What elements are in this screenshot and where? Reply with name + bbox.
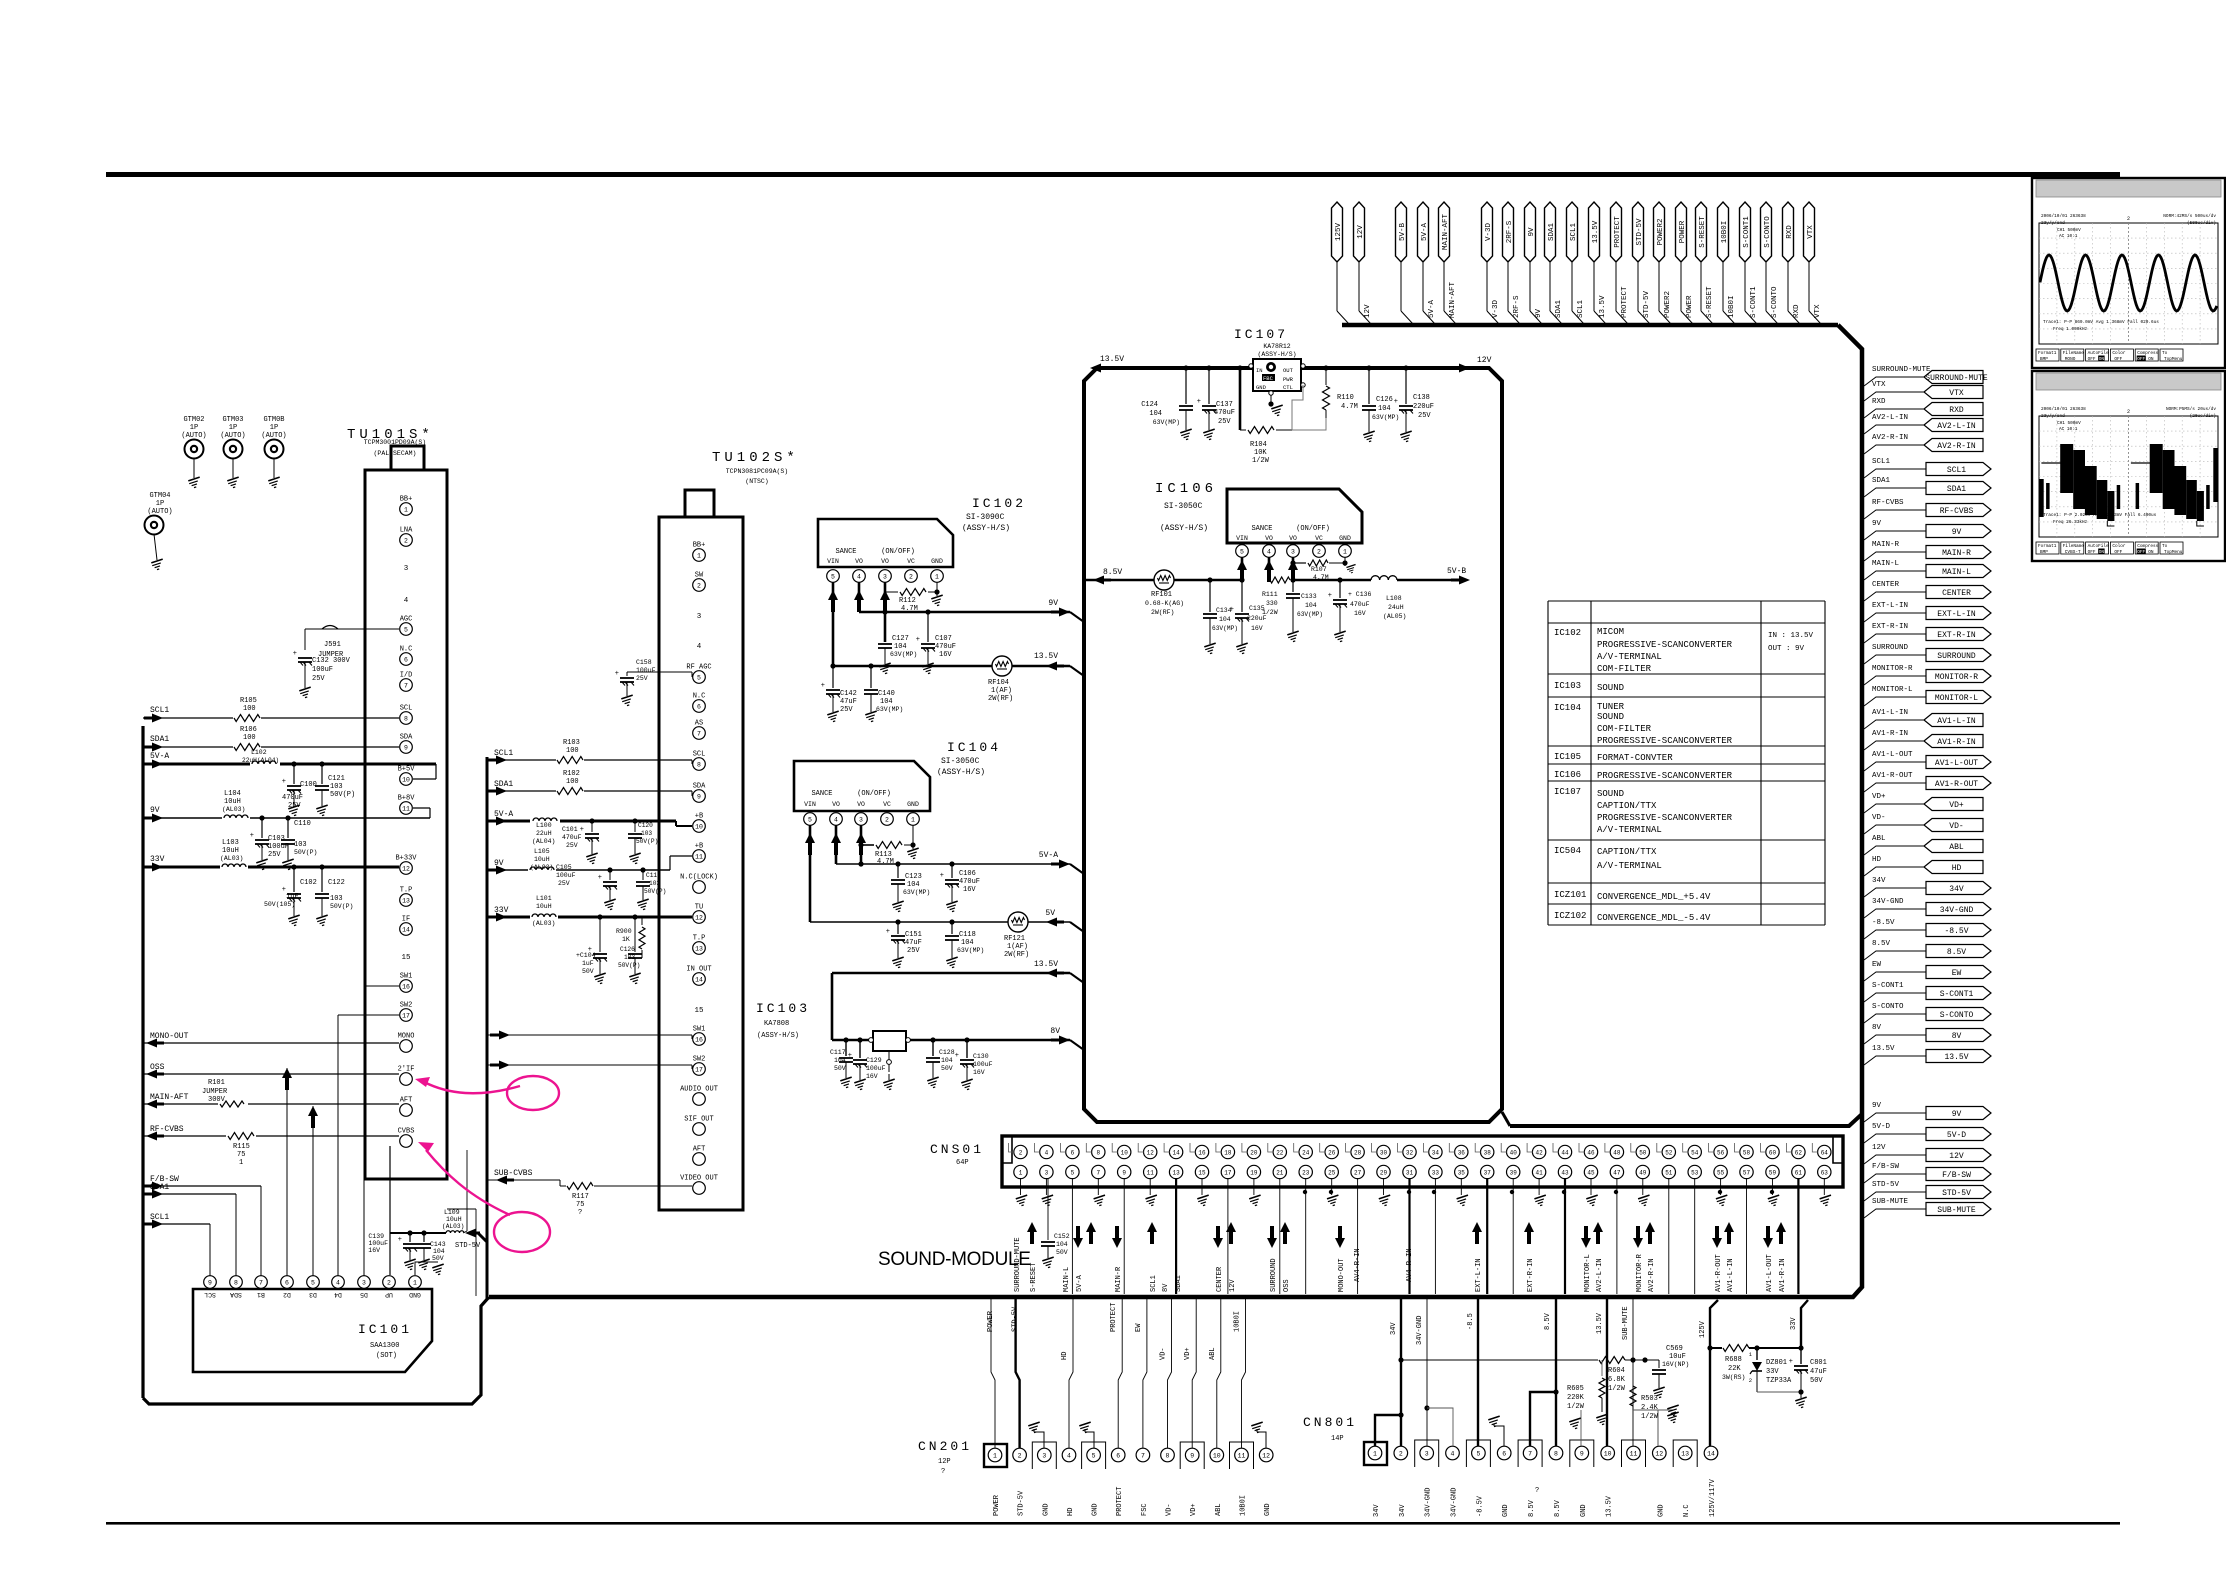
capacitor C127 104 63V(MP) [884, 612, 886, 642]
svg-text:AV1-L-IN: AV1-L-IN [1727, 1258, 1735, 1292]
svg-text:C138: C138 [1413, 394, 1430, 402]
svg-text:45: 45 [1587, 1169, 1595, 1176]
svg-text:10: 10 [402, 776, 410, 783]
capacitor C134 104 63V(MP) [1207, 577, 1212, 582]
svg-text:125V: 125V [1699, 1320, 1707, 1338]
svg-text:34V: 34V [1373, 1504, 1381, 1517]
ground [1034, 1432, 1044, 1448]
svg-text:(PAL-SECAM): (PAL-SECAM) [374, 450, 417, 457]
svg-text:34V: 34V [1949, 885, 1964, 894]
svg-text:13: 13 [695, 945, 703, 952]
svg-text:IC101: IC101 [358, 1322, 412, 1337]
svg-text:+C104: +C104 [576, 952, 596, 959]
svg-text:41: 41 [1535, 1169, 1543, 1176]
svg-text:EXT-R-IN: EXT-R-IN [1937, 631, 1976, 640]
capacitor C143 104 50V [423, 1233, 425, 1242]
svg-text:SCL1: SCL1 [1577, 299, 1585, 318]
svg-text:12V: 12V [1872, 1144, 1886, 1152]
svg-text:1K: 1K [622, 936, 630, 943]
svg-text:CENTER: CENTER [1216, 1266, 1224, 1292]
svg-text:51: 51 [1665, 1169, 1673, 1176]
svg-text:C151: C151 [905, 931, 922, 939]
svg-text:8.5V: 8.5V [1554, 1499, 1562, 1517]
svg-text:D2: D2 [283, 1291, 291, 1298]
svg-text:470uF: 470uF [282, 794, 303, 802]
svg-text:VD+: VD+ [1184, 1347, 1192, 1360]
svg-text:+: + [821, 682, 825, 690]
capacitor C120 103 50V(P) [634, 821, 636, 832]
svg-text:17: 17 [402, 1012, 410, 1019]
svg-text:C135: C135 [1249, 605, 1265, 612]
svg-text:SURROUND: SURROUND [1872, 644, 1909, 652]
svg-text:C140: C140 [878, 690, 895, 698]
svg-text:RXD: RXD [1872, 398, 1886, 406]
svg-text:2W(RF): 2W(RF) [988, 695, 1013, 703]
sheet top border [106, 172, 2120, 177]
svg-text:D4: D4 [334, 1291, 342, 1298]
svg-text:IC504: IC504 [1554, 846, 1581, 856]
svg-text:+: + [398, 1236, 402, 1244]
junction [882, 609, 887, 614]
svg-text:100: 100 [566, 747, 579, 755]
svg-text:GND: GND [1264, 1503, 1272, 1516]
resistor R112 4.7M [885, 591, 898, 593]
svg-text:AV1-L-OUT: AV1-L-OUT [1935, 759, 1978, 768]
TU102S left rail [486, 757, 489, 1300]
capacitor C129 100uF 16V [859, 1040, 861, 1058]
svg-text:IC106: IC106 [1155, 481, 1217, 497]
svg-text:STD-5V: STD-5V [1643, 290, 1651, 318]
ground [912, 825, 914, 849]
svg-text:1: 1 [911, 816, 915, 823]
svg-text:NORM:P5MS/s 20us/dv: NORM:P5MS/s 20us/dv [2166, 407, 2216, 412]
svg-text:26: 26 [1328, 1149, 1336, 1156]
svg-text:9: 9 [404, 744, 408, 751]
svg-text:10B0I: 10B0I [1721, 221, 1729, 244]
svg-text:-8.5V: -8.5V [1944, 927, 1968, 936]
svg-text:40: 40 [1510, 1149, 1518, 1156]
tuner TU101S block [365, 470, 447, 1179]
svg-text:+ C136: + C136 [1348, 591, 1372, 598]
svg-text:AC 10:1: AC 10:1 [2059, 234, 2078, 239]
svg-text:C117: C117 [830, 1049, 846, 1056]
svg-text:C119: C119 [646, 872, 661, 879]
svg-text:220uF: 220uF [1413, 403, 1434, 411]
svg-text:6: 6 [697, 703, 701, 710]
svg-text:-8.5V: -8.5V [1476, 1495, 1484, 1517]
capacitor C132 100uF 25V 300V [304, 629, 306, 650]
svg-text:47uF: 47uF [1810, 1368, 1827, 1376]
svg-text:?: ? [941, 1468, 945, 1476]
svg-text:C143: C143 [430, 1241, 446, 1248]
ground pin12 [1658, 1410, 1673, 1446]
net 13.5V line [833, 665, 992, 668]
svg-text:14P: 14P [1331, 1435, 1344, 1443]
svg-text:IC107: IC107 [1234, 327, 1288, 342]
junction dots on 13.5V rail [1183, 365, 1188, 370]
resistor R104 10K 1/2W [1248, 427, 1274, 434]
svg-text:38: 38 [1484, 1149, 1492, 1156]
svg-text:AV1-L-IN: AV1-L-IN [1872, 709, 1908, 717]
svg-text:(AL03): (AL03) [530, 864, 553, 871]
capacitor C105 100uF 25V [609, 870, 611, 880]
svg-text:(500us/div): (500us/div) [2187, 221, 2216, 226]
svg-text:GND: GND [409, 1291, 421, 1298]
CN201 wires and labels [994, 1447, 996, 1449]
top bus [1342, 323, 1838, 328]
svg-text:VIN: VIN [827, 558, 839, 565]
svg-text:C123: C123 [905, 873, 922, 881]
svg-text:13: 13 [1172, 1169, 1180, 1176]
svg-text:39: 39 [1510, 1169, 1518, 1176]
svg-text:CH1 500mV: CH1 500mV [2057, 421, 2081, 426]
svg-text:N.C: N.C [1683, 1504, 1691, 1517]
svg-text:15: 15 [401, 954, 411, 962]
capacitor C126b 104 63V(MP) [1368, 368, 1370, 404]
svg-text:16V: 16V [963, 886, 976, 894]
svg-text:+: + [598, 874, 602, 882]
svg-text:VIN: VIN [804, 801, 816, 808]
svg-text:13: 13 [1681, 1450, 1689, 1457]
svg-text:3: 3 [404, 565, 409, 573]
svg-text:22uH(AL04): 22uH(AL04) [242, 757, 279, 764]
svg-text:PROGRESSIVE-SCANCONVERTER: PROGRESSIVE-SCANCONVERTER [1597, 640, 1733, 650]
svg-text:AV1-R-IN: AV1-R-IN [1872, 730, 1908, 738]
svg-text:5: 5 [404, 626, 408, 633]
svg-text:CONVERGENCE_MDL_-5.4V: CONVERGENCE_MDL_-5.4V [1597, 913, 1711, 923]
svg-text:AV1-L-IN: AV1-L-IN [1937, 717, 1976, 726]
svg-text:+: + [250, 832, 254, 840]
svg-text:2.4K: 2.4K [1641, 1404, 1659, 1412]
svg-text:37: 37 [1484, 1169, 1492, 1176]
svg-text:SDA1: SDA1 [150, 735, 169, 744]
junction [607, 867, 612, 872]
wire SW2 to IC101 pin4 [338, 1014, 399, 1016]
svg-text:AV1-R-IN: AV1-R-IN [1937, 738, 1976, 747]
svg-text:SCL1: SCL1 [1150, 1275, 1158, 1292]
svg-text:GTM03: GTM03 [222, 416, 243, 424]
svg-text:13.5V: 13.5V [1944, 1053, 1968, 1062]
ground [888, 1074, 890, 1080]
svg-text:7: 7 [1141, 1452, 1145, 1459]
svg-text:MAIN-AFT: MAIN-AFT [1442, 214, 1450, 251]
svg-text:104: 104 [894, 643, 907, 651]
svg-text:R112: R112 [899, 597, 916, 605]
svg-text:UP: UP [385, 1291, 393, 1298]
svg-text:9: 9 [1580, 1450, 1584, 1457]
svg-text:IN: IN [1256, 367, 1263, 374]
svg-text:EXT-R-IN: EXT-R-IN [1872, 623, 1908, 631]
capacitor C103 100uF 25V [261, 818, 263, 838]
svg-text:13.5V: 13.5V [1034, 960, 1058, 969]
svg-text:AV2-L-IN: AV2-L-IN [1872, 414, 1908, 422]
svg-text:36: 36 [1458, 1149, 1466, 1156]
svg-text:(NTSC): (NTSC) [745, 478, 768, 485]
svg-text:5V-D: 5V-D [1947, 1131, 1966, 1140]
svg-text:ON: ON [2099, 357, 2105, 362]
svg-text:16V: 16V [1251, 625, 1263, 632]
svg-text:TopMenu: TopMenu [2164, 357, 2183, 362]
svg-text:104: 104 [1149, 410, 1162, 418]
wire 5V-A to block edge [1070, 864, 1084, 874]
capacitor C106 470uF 16V [951, 864, 953, 878]
svg-text:4: 4 [1267, 548, 1271, 555]
svg-text:VTX: VTX [1807, 225, 1815, 239]
capacitor C135 220uF 16V [1241, 580, 1243, 612]
svg-text:BMP: BMP [2040, 550, 2048, 555]
svg-text:CTL: CTL [1283, 384, 1293, 391]
svg-text:ON: ON [2148, 550, 2154, 555]
svg-text:F/B-SW: F/B-SW [1872, 1163, 1900, 1171]
RF resistor RF104 1(AF) 2W(RF) [992, 656, 1012, 676]
inductor L105 10uH(AL03) [528, 864, 556, 875]
svg-text:S-CONT1: S-CONT1 [1743, 216, 1751, 248]
svg-text:ABL: ABL [1872, 835, 1886, 843]
inductor L102 22uH(AL04) [250, 758, 280, 769]
svg-text:34V-GND: 34V-GND [1451, 1488, 1459, 1517]
ground IC106 pin1 [1344, 557, 1346, 566]
board outline left lower [143, 1297, 489, 1404]
svg-text:17: 17 [695, 1066, 703, 1073]
svg-text:2: 2 [404, 537, 408, 544]
IC IC102 SI-3090C [818, 519, 953, 567]
svg-text:48: 48 [1613, 1149, 1621, 1156]
wire 34V pin1+2 [1375, 1415, 1401, 1446]
svg-text:25V: 25V [1218, 418, 1231, 426]
svg-text:SCL1: SCL1 [1872, 458, 1891, 466]
svg-text:EXT-R-IN: EXT-R-IN [1527, 1258, 1535, 1292]
svg-text:5V-A: 5V-A [1421, 223, 1429, 242]
svg-text:VD-: VD- [1166, 1503, 1174, 1516]
svg-text:63V(MP): 63V(MP) [957, 947, 984, 954]
svg-text:33V: 33V [1790, 1317, 1798, 1330]
svg-text:33: 33 [1432, 1169, 1440, 1176]
ground C801 [1757, 1391, 1801, 1393]
svg-text:5: 5 [1071, 1169, 1075, 1176]
svg-text:7: 7 [259, 1279, 263, 1286]
wire feedback [1292, 385, 1303, 430]
svg-text:BMP: BMP [2040, 357, 2048, 362]
svg-text:11: 11 [1630, 1450, 1638, 1457]
svg-text:13.5V: 13.5V [1100, 355, 1124, 364]
svg-text:MAIN-R: MAIN-R [1942, 549, 1971, 558]
svg-text:GTM0B: GTM0B [263, 416, 284, 424]
wire 13.5V to block edge [1070, 666, 1084, 676]
net 8V line [832, 1039, 873, 1042]
svg-text:8.5V: 8.5V [1947, 948, 1966, 957]
svg-text:AV1-L-OUT: AV1-L-OUT [1766, 1254, 1774, 1292]
svg-text:CENTER: CENTER [1872, 581, 1900, 589]
svg-text:11: 11 [695, 853, 703, 860]
wire 33V riser [1801, 1300, 1808, 1348]
svg-text:5V-A: 5V-A [1076, 1274, 1084, 1292]
svg-text:6: 6 [404, 656, 408, 663]
svg-text:10uH: 10uH [446, 1216, 462, 1223]
svg-text:9V: 9V [494, 859, 504, 868]
svg-text:50V(P): 50V(P) [618, 962, 640, 969]
svg-text:C100: C100 [300, 781, 317, 789]
resistor R105 100 [233, 712, 261, 724]
svg-text:JUMPER: JUMPER [202, 1088, 228, 1096]
svg-text:CVBS-T: CVBS-T [2065, 550, 2081, 555]
svg-text:25V: 25V [268, 851, 281, 859]
svg-text:6: 6 [285, 1279, 289, 1286]
resistor R900 1K [641, 917, 643, 925]
svg-text:PROTECT: PROTECT [1621, 286, 1629, 318]
svg-text:10uH: 10uH [534, 856, 550, 863]
svg-text:PROGRESSIVE-SCANCONVERTER: PROGRESSIVE-SCANCONVERTER [1597, 813, 1733, 823]
svg-text:S-CONTO: S-CONTO [1771, 286, 1779, 318]
svg-text:104: 104 [834, 1057, 846, 1064]
svg-text:63V(MP): 63V(MP) [1212, 625, 1238, 632]
svg-text:75: 75 [237, 1151, 245, 1159]
svg-text:SDA1: SDA1 [1947, 485, 1966, 494]
svg-text:104: 104 [941, 1057, 953, 1064]
svg-text:100uF: 100uF [368, 1240, 388, 1247]
wire IC104 pin5 VIN [809, 825, 812, 922]
svg-text:50V: 50V [432, 1255, 444, 1262]
svg-text:5V-B: 5V-B [1447, 567, 1466, 576]
svg-text:PROGRESSIVE-SCANCONVERTER: PROGRESSIVE-SCANCONVERTER [1597, 771, 1733, 781]
svg-text:470uF: 470uF [562, 834, 582, 841]
svg-text:4: 4 [1067, 1452, 1071, 1459]
svg-text:C105: C105 [556, 864, 572, 871]
svg-text:L108: L108 [1386, 595, 1402, 602]
svg-text:35: 35 [1458, 1169, 1466, 1176]
svg-text:1uF: 1uF [582, 960, 594, 967]
svg-text:COM-FILTER: COM-FILTER [1597, 664, 1652, 674]
svg-text:8.5V: 8.5V [1544, 1312, 1552, 1330]
svg-text:GTM02: GTM02 [183, 416, 204, 424]
capacitor C140 104 63V(MP) [870, 666, 872, 688]
svg-text:104: 104 [907, 881, 920, 889]
svg-text:MAIN-R: MAIN-R [1115, 1266, 1123, 1292]
svg-text:TU102S*: TU102S* [712, 450, 799, 466]
svg-text:13.5V: 13.5V [1606, 1495, 1614, 1517]
resistor R503 2.4K 1/2W [1630, 1386, 1636, 1406]
svg-text:AV1-R-IN: AV1-R-IN [1779, 1258, 1787, 1292]
svg-text:16: 16 [402, 983, 410, 990]
svg-text:RF121: RF121 [1004, 935, 1025, 943]
svg-text:24uH: 24uH [1388, 604, 1404, 611]
svg-text:1: 1 [1373, 1450, 1377, 1457]
inductor L103 10uH(AL03) [220, 861, 248, 872]
resistor R604 6.8K 1/2W [1599, 1357, 1625, 1364]
svg-text:POWER2: POWER2 [1664, 291, 1672, 318]
svg-text:63V(MP): 63V(MP) [1297, 611, 1323, 618]
svg-text:EXT-L-IN: EXT-L-IN [1937, 610, 1976, 619]
svg-text:GND: GND [1502, 1504, 1510, 1517]
connector CNS01 pins 1-64 [1014, 1145, 1027, 1158]
svg-text:OUT: OUT [1283, 367, 1294, 374]
resistor R103 100 [556, 754, 584, 766]
svg-text:FORMAT-CONVTER: FORMAT-CONVTER [1597, 753, 1673, 763]
svg-text:9: 9 [1122, 1169, 1126, 1176]
svg-text:13.5V: 13.5V [1592, 220, 1600, 243]
svg-text:+: + [615, 670, 619, 678]
svg-text:(ON/OFF): (ON/OFF) [857, 790, 891, 798]
svg-text:VO: VO [1265, 535, 1273, 542]
svg-text:42: 42 [1535, 1149, 1543, 1156]
svg-text:GND: GND [931, 558, 943, 565]
svg-text:SAA1300: SAA1300 [370, 1342, 399, 1350]
svg-text:IN : 13.5V: IN : 13.5V [1768, 632, 1814, 640]
capacitor C104 1uF 50V [599, 917, 601, 952]
svg-text:103: 103 [624, 954, 635, 961]
svg-text:POWER: POWER [987, 1310, 995, 1332]
svg-text:28: 28 [1354, 1149, 1362, 1156]
wire IC103 left edge [831, 973, 834, 1040]
svg-text:ICZ101: ICZ101 [1554, 890, 1586, 900]
svg-text:3: 3 [1045, 1169, 1049, 1176]
svg-text:RXD: RXD [1949, 406, 1964, 415]
svg-text:50V(P): 50V(P) [330, 791, 355, 799]
svg-text:2006/10/01 263638: 2006/10/01 263638 [2041, 214, 2086, 219]
svg-text:(ASSY-H/S): (ASSY-H/S) [1257, 351, 1296, 358]
svg-text:SCL1: SCL1 [1570, 223, 1578, 242]
svg-text:VD+: VD+ [1872, 793, 1886, 801]
capacitor C158 100uF 25V [626, 672, 628, 676]
svg-text:16: 16 [1198, 1149, 1206, 1156]
junction [259, 815, 264, 820]
svg-text:11: 11 [1147, 1169, 1155, 1176]
svg-text:1/2W: 1/2W [1252, 457, 1270, 465]
svg-text:18: 18 [1224, 1149, 1232, 1156]
wire STD-5V node [389, 1146, 391, 1275]
svg-text:C121: C121 [328, 775, 345, 783]
svg-text:IC102: IC102 [972, 496, 1026, 511]
svg-text:FSC: FSC [1141, 1503, 1149, 1516]
svg-text:44: 44 [1561, 1149, 1569, 1156]
svg-text:3: 3 [883, 573, 887, 580]
junction [858, 861, 863, 866]
svg-text:GND: GND [1339, 535, 1351, 542]
svg-text:+: + [1394, 398, 1398, 406]
resistor R115 75 [226, 1130, 256, 1141]
capacitor C130 100uF 16V [966, 1040, 968, 1058]
IC101 pins 9..1 [204, 1276, 217, 1289]
svg-text:8.5V: 8.5V [1872, 940, 1891, 948]
svg-text:CENTER: CENTER [1942, 589, 1971, 598]
svg-text:C133: C133 [1301, 593, 1317, 600]
svg-text:S-CONTO: S-CONTO [1940, 1011, 1974, 1020]
svg-text:5: 5 [831, 573, 835, 580]
svg-text:VC: VC [883, 801, 891, 808]
svg-text:VD+: VD+ [1949, 801, 1964, 810]
resistor R106 100 [233, 741, 261, 753]
svg-text:34V: 34V [1399, 1504, 1407, 1517]
svg-text:(ON/OFF): (ON/OFF) [881, 548, 915, 556]
svg-text:25V: 25V [840, 706, 853, 714]
svg-text:CONVERGENCE_MDL_+5.4V: CONVERGENCE_MDL_+5.4V [1597, 892, 1711, 902]
svg-text:14: 14 [1172, 1149, 1180, 1156]
svg-text:SUB-CVBS: SUB-CVBS [494, 1169, 533, 1178]
svg-text:5: 5 [808, 816, 812, 823]
svg-text:21: 21 [1276, 1169, 1284, 1176]
IC function table grid [1548, 600, 1825, 602]
svg-text:HD: HD [1067, 1508, 1075, 1516]
svg-text:SCL1: SCL1 [1947, 466, 1966, 475]
svg-text:J591: J591 [324, 641, 341, 649]
svg-text:AV1-L-OUT: AV1-L-OUT [1872, 751, 1913, 759]
svg-text:1(AF): 1(AF) [991, 687, 1012, 695]
svg-text:R106: R106 [240, 726, 257, 734]
svg-text:(20us/div): (20us/div) [2190, 414, 2216, 419]
svg-text:C101: C101 [562, 826, 578, 833]
ground [936, 582, 938, 596]
svg-text:EW: EW [1135, 1323, 1143, 1332]
svg-text:+: + [1230, 606, 1234, 614]
